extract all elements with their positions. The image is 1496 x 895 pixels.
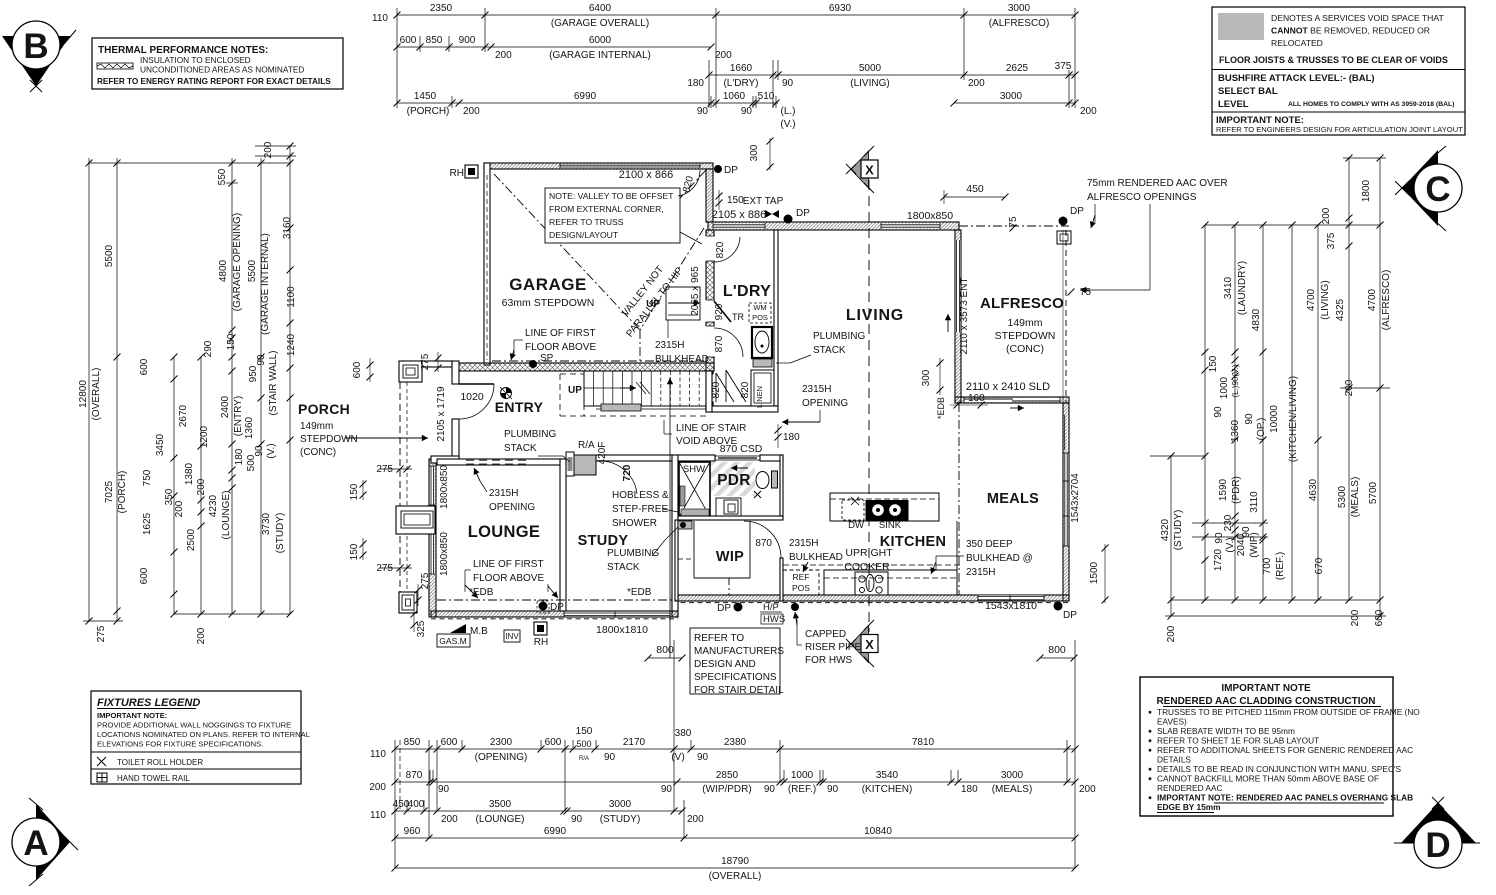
- svg-text:200: 200: [1079, 784, 1096, 795]
- svg-text:90: 90: [1241, 526, 1252, 538]
- svg-text:LINE OF FIRST: LINE OF FIRST: [473, 559, 544, 570]
- brick strip below kitchen wall: [672, 602, 1069, 604]
- svg-text:110: 110: [372, 13, 388, 24]
- svg-text:(PORCH): (PORCH): [407, 106, 450, 117]
- svg-text:2315H: 2315H: [966, 567, 995, 578]
- window 1543x2704: [1064, 453, 1069, 546]
- svg-text:FIXTURES LEGEND: FIXTURES LEGEND: [97, 697, 200, 709]
- svg-text:CAPPED: CAPPED: [805, 629, 846, 640]
- svg-text:18790: 18790: [721, 856, 749, 867]
- section marker X top: [851, 151, 869, 188]
- svg-text:75: 75: [1008, 216, 1019, 228]
- svg-text:200: 200: [263, 141, 274, 158]
- svg-text:4800: 4800: [218, 259, 229, 282]
- svg-text:(STUDY): (STUDY): [275, 513, 286, 554]
- svg-text:FOR STAIR DETAIL: FOR STAIR DETAIL: [694, 685, 784, 696]
- svg-text:(STUDY): (STUDY): [1173, 510, 1184, 551]
- window 1800x1810: [564, 612, 670, 617]
- svg-text:600: 600: [441, 737, 458, 748]
- svg-text:150: 150: [576, 726, 593, 737]
- svg-text:(L'DRY): (L'DRY): [723, 78, 758, 89]
- svg-text:90: 90: [827, 784, 839, 795]
- svg-text:HOBLESS &: HOBLESS &: [612, 490, 669, 501]
- svg-text:275: 275: [96, 625, 107, 642]
- dim 300 alfresco left: [939, 358, 941, 395]
- stair bottom landing edge: [596, 405, 709, 407]
- DP garage top right: [714, 165, 722, 173]
- svg-text:(V): (V): [671, 752, 684, 763]
- svg-text:(LAUNDRY): (LAUNDRY): [1237, 261, 1248, 315]
- svg-text:350 DEEP: 350 DEEP: [966, 539, 1013, 550]
- svg-text:275: 275: [376, 464, 393, 475]
- svg-text:OPENING: OPENING: [802, 398, 848, 409]
- svg-text:DENOTES A SERVICES VOID SPACE: DENOTES A SERVICES VOID SPACE THAT: [1271, 13, 1444, 23]
- svg-text:600: 600: [352, 361, 363, 378]
- svg-text:3110: 3110: [1249, 491, 1260, 513]
- svg-text:2500: 2500: [186, 528, 197, 551]
- svg-text:PLUMBING: PLUMBING: [813, 331, 865, 342]
- bottom dimension extension lines: [394, 740, 396, 868]
- upright cooker: [855, 572, 888, 595]
- svg-text:LINE OF FIRST: LINE OF FIRST: [525, 328, 596, 339]
- svg-text:ALFRESCO OPENINGS: ALFRESCO OPENINGS: [1087, 192, 1197, 203]
- svg-text:POS: POS: [752, 313, 768, 322]
- svg-text:SPECIFICATIONS: SPECIFICATIONS: [694, 672, 777, 683]
- grey void swatch: [1218, 13, 1264, 40]
- svg-text:1020: 1020: [460, 391, 484, 403]
- svg-text:(OVERALL): (OVERALL): [91, 368, 102, 421]
- toilet roll holder legend row: [91, 751, 301, 753]
- svg-text:2670: 2670: [178, 404, 189, 427]
- svg-text:MEALS: MEALS: [987, 491, 1039, 507]
- svg-text:3000: 3000: [1008, 3, 1031, 14]
- svg-text:3000: 3000: [1000, 91, 1023, 102]
- svg-text:REFER TO: REFER TO: [694, 633, 744, 644]
- wall: garage bottom (crosshatched): [452, 363, 714, 371]
- svg-text:PROVIDE ADDITIONAL WALL NOGGIN: PROVIDE ADDITIONAL WALL NOGGINGS TO FIXT…: [97, 721, 291, 730]
- svg-text:5300: 5300: [1337, 485, 1348, 508]
- svg-text:(MEALS): (MEALS): [1350, 477, 1361, 518]
- top dimension row 4 (1450 porch / 6990 / 1060 / 510 / 3000): [397, 102, 778, 104]
- thermal performance notes box: [92, 38, 343, 89]
- svg-text:750: 750: [142, 469, 153, 486]
- svg-text:BULKHEAD @: BULKHEAD @: [966, 553, 1033, 564]
- svg-text:(LOUNGE): (LOUNGE): [221, 491, 232, 540]
- svg-text:SHOWER: SHOWER: [612, 518, 657, 529]
- svg-text:90: 90: [1214, 532, 1225, 544]
- svg-text:200: 200: [1166, 625, 1177, 642]
- WM POS dashed box: [749, 303, 771, 323]
- svg-text:700: 700: [1262, 557, 1273, 574]
- hallway wall left of PDR: [706, 371, 712, 412]
- top dimension row 3 (1660 ldry / 5000 living / 2625 / 375): [709, 74, 1075, 76]
- island DW dashed: [842, 500, 864, 520]
- svg-text:380: 380: [675, 728, 692, 739]
- left dimension mid ticks: [114, 354, 121, 361]
- svg-text:SLAB REBATE WIDTH TO BE 95mm: SLAB REBATE WIDTH TO BE 95mm: [1157, 726, 1295, 736]
- svg-text:FLOOR ABOVE: FLOOR ABOVE: [473, 573, 544, 584]
- svg-text:STEP-FREE: STEP-FREE: [612, 504, 668, 515]
- porch top wall stub: [422, 361, 452, 367]
- svg-text:ENTRY: ENTRY: [495, 399, 544, 415]
- svg-text:(REF.): (REF.): [1275, 552, 1286, 580]
- svg-text:POS: POS: [792, 583, 810, 593]
- svg-text:500: 500: [576, 739, 591, 749]
- garage internal UP ramp arrow: [666, 287, 700, 320]
- svg-text:3540: 3540: [876, 770, 899, 781]
- svg-text:90: 90: [1213, 406, 1224, 418]
- svg-text:2300: 2300: [490, 737, 513, 748]
- svg-text:2315H: 2315H: [789, 538, 818, 549]
- svg-text:800: 800: [656, 644, 674, 656]
- svg-text:(ENTRY): (ENTRY): [233, 396, 244, 436]
- svg-text:STEPDOWN: STEPDOWN: [300, 434, 358, 445]
- gas meter: [437, 634, 470, 647]
- svg-text:(PDR): (PDR): [1231, 476, 1242, 504]
- svg-text:275: 275: [420, 353, 431, 370]
- svg-text:LOUNGE: LOUNGE: [468, 523, 540, 541]
- svg-text:300: 300: [749, 144, 760, 161]
- svg-text:DESIGN/LAYOUT: DESIGN/LAYOUT: [549, 230, 619, 240]
- insulation hatch swatch: [97, 63, 133, 69]
- svg-text:IMPORTANT NOTE:: IMPORTANT NOTE:: [97, 711, 167, 720]
- svg-text:(V.): (V.): [1225, 537, 1236, 552]
- svg-text:LOCATIONS NOMINATED ON PLANS.: LOCATIONS NOMINATED ON PLANS. REFER TO I…: [97, 730, 310, 739]
- svg-text:LEVEL: LEVEL: [1218, 99, 1249, 110]
- stair void extent line: [669, 377, 671, 658]
- svg-text:720: 720: [622, 464, 633, 481]
- window 2105x886: [713, 224, 765, 229]
- svg-text:870: 870: [406, 770, 423, 781]
- services void note box: [1212, 7, 1465, 135]
- svg-text:2110 x 3573 ENT: 2110 x 3573 ENT: [959, 277, 970, 354]
- svg-text:149mm: 149mm: [300, 421, 333, 432]
- bottom dimension row 2 (870/2850 wip-pdr/1000 ref/3540 kitchen/180/3000 meals): [395, 781, 1075, 783]
- svg-text:(REF.): (REF.): [788, 784, 816, 795]
- svg-text:FROM EXTERNAL CORNER,: FROM EXTERNAL CORNER,: [549, 204, 664, 214]
- WIP right wall: [780, 455, 783, 516]
- svg-text:12800: 12800: [78, 380, 89, 408]
- svg-text:ELEVATIONS FOR FIXTURE SPECIFI: ELEVATIONS FOR FIXTURE SPECIFICATIONS.: [97, 740, 263, 749]
- svg-text:DESIGN AND: DESIGN AND: [694, 659, 756, 670]
- svg-text:200: 200: [196, 478, 207, 495]
- svg-text:1360: 1360: [1230, 419, 1241, 442]
- svg-text:2315H: 2315H: [802, 384, 831, 395]
- left dimension vertical lines: [88, 158, 90, 621]
- garage roof valley dash-dot lines: [494, 174, 640, 330]
- svg-text:6930: 6930: [829, 3, 852, 14]
- svg-text:1800x850: 1800x850: [907, 210, 953, 222]
- svg-text:LINE OF STAIR: LINE OF STAIR: [676, 423, 746, 434]
- svg-text:A: A: [23, 824, 48, 863]
- svg-text:6990: 6990: [544, 826, 567, 837]
- svg-text:3500: 3500: [489, 799, 512, 810]
- note valley box: [545, 188, 680, 243]
- svg-text:870: 870: [755, 538, 772, 549]
- svg-text:BULKHEAD: BULKHEAD: [789, 552, 843, 563]
- PDR arrow: [731, 467, 748, 469]
- wall: garage top: [484, 163, 713, 169]
- svg-text:ALFRESCO: ALFRESCO: [980, 295, 1064, 312]
- svg-text:600: 600: [139, 567, 150, 584]
- window 1800x850: [881, 224, 940, 229]
- svg-text:COOKER: COOKER: [844, 561, 890, 573]
- wall: kitchen/meals bottom external: [672, 595, 1069, 601]
- svg-text:5000: 5000: [859, 63, 882, 74]
- svg-text:1660: 1660: [730, 63, 753, 74]
- svg-text:1200: 1200: [199, 425, 210, 448]
- laundry door 820 top: [714, 237, 740, 262]
- svg-text:300: 300: [921, 369, 932, 386]
- svg-text:7810: 7810: [912, 737, 935, 748]
- svg-text:275: 275: [376, 563, 393, 574]
- svg-text:325: 325: [416, 620, 427, 637]
- svg-text:(WIP/PDR): (WIP/PDR): [702, 784, 751, 795]
- svg-text:90: 90: [697, 752, 709, 763]
- svg-text:850: 850: [426, 35, 443, 46]
- stairs: [584, 371, 709, 406]
- svg-text:6000: 6000: [589, 35, 612, 46]
- svg-text:UNCONDITIONED AREAS AS NOMINAT: UNCONDITIONED AREAS AS NOMINATED: [140, 65, 304, 75]
- svg-text:90: 90: [782, 78, 794, 89]
- svg-text:420F: 420F: [597, 442, 608, 465]
- PDR tiled floor: [711, 462, 755, 496]
- svg-text:200: 200: [968, 78, 985, 89]
- svg-text:200: 200: [369, 782, 386, 793]
- svg-text:ALL HOMES TO COMPLY WITH AS 39: ALL HOMES TO COMPLY WITH AS 3959-2018 (B…: [1288, 101, 1454, 108]
- 870 CSD cavity slider: [715, 456, 760, 460]
- svg-text:4630: 4630: [1308, 478, 1319, 501]
- svg-text:1000: 1000: [791, 770, 814, 781]
- svg-text:90: 90: [256, 354, 267, 366]
- svg-text:MANUFACTURERS: MANUFACTURERS: [694, 646, 784, 657]
- svg-text:5700: 5700: [1368, 481, 1379, 504]
- svg-text:(MEALS): (MEALS): [992, 784, 1033, 795]
- svg-text:REFER TO ENGINEERS DESIGN FOR: REFER TO ENGINEERS DESIGN FOR ARTICULATI…: [1216, 125, 1463, 134]
- bottom dimension row 1 (850/600/2300 opening/600/150/500/2170/380/2380/7810): [395, 748, 1075, 750]
- plumbing stack dot at WIP corner: [678, 521, 692, 529]
- svg-text:(KITCHEN): (KITCHEN): [862, 784, 913, 795]
- stair void dashed outline: [583, 374, 585, 416]
- svg-text:(LIVING): (LIVING): [1320, 280, 1331, 319]
- svg-text:200: 200: [441, 814, 458, 825]
- porch pillar bottom: [399, 592, 417, 613]
- svg-text:670: 670: [1314, 557, 1325, 574]
- svg-text:SELECT BAL: SELECT BAL: [1218, 86, 1278, 97]
- top dimension row 1 (2350 / 6400 garage overall / 6930 / 3000 alfresco): [397, 14, 1075, 16]
- R/A grey unit: [566, 452, 574, 476]
- svg-text:L'DRY: L'DRY: [723, 283, 771, 300]
- svg-text:4830: 4830: [1251, 308, 1262, 331]
- svg-text:3410: 3410: [1223, 276, 1234, 299]
- svg-text:RISER PIPE: RISER PIPE: [805, 642, 861, 653]
- svg-text:75: 75: [1080, 287, 1092, 298]
- svg-text:200: 200: [1321, 207, 1332, 224]
- REF POS dashed box: [783, 570, 819, 595]
- svg-text:RENDERED AAC CLADDING CONSTRUC: RENDERED AAC CLADDING CONSTRUCTION: [1156, 696, 1375, 707]
- svg-text:1543x2704: 1543x2704: [1070, 473, 1081, 523]
- SHW shower: [679, 462, 710, 517]
- svg-text:(GARAGE INTERNAL): (GARAGE INTERNAL): [549, 50, 651, 61]
- svg-text:180: 180: [961, 784, 978, 795]
- line of first floor dash-dot in garage: [492, 360, 704, 362]
- wall: lounge west external: [429, 459, 436, 617]
- svg-text:STACK: STACK: [607, 562, 640, 573]
- svg-text:(KITCHEN/LIVING): (KITCHEN/LIVING): [1288, 376, 1299, 462]
- dim 180 below linen: [775, 427, 782, 434]
- svg-text:200: 200: [1080, 106, 1097, 117]
- svg-text:INSULATION TO ENCLOSED: INSULATION TO ENCLOSED: [140, 55, 251, 65]
- svg-text:950: 950: [248, 365, 259, 382]
- fireplace bump on west wall: [396, 506, 435, 534]
- svg-text:INV: INV: [505, 632, 519, 641]
- svg-text:150: 150: [349, 483, 360, 500]
- svg-text:2350: 2350: [430, 3, 453, 14]
- svg-text:D: D: [1425, 826, 1450, 865]
- svg-text:110: 110: [370, 810, 386, 821]
- svg-text:STEPDOWN: STEPDOWN: [995, 330, 1056, 342]
- dashed 2315H opening in lounge wall: [466, 460, 531, 464]
- svg-text:REFER TO TRUSS: REFER TO TRUSS: [549, 217, 624, 227]
- svg-text:(V.): (V.): [266, 443, 277, 458]
- svg-text:800: 800: [1048, 644, 1066, 656]
- bottom dimension row 5 (18790 overall): [395, 867, 1075, 869]
- svg-text:PDR: PDR: [717, 472, 751, 489]
- svg-text:820: 820: [715, 241, 726, 258]
- svg-text:DETAILS: DETAILS: [1157, 755, 1191, 765]
- rendered AAC cladding note box: [1140, 677, 1393, 816]
- wall: alfresco left: [955, 230, 961, 403]
- right dimension connectors: [1205, 224, 1380, 226]
- svg-text:HAND TOWEL RAIL: HAND TOWEL RAIL: [117, 774, 190, 783]
- island sink unit: [866, 501, 908, 521]
- PDR/SHW top wall: [678, 455, 715, 461]
- svg-text:200: 200: [1350, 609, 1361, 626]
- wall: entry/study top segment with RA: [596, 455, 678, 461]
- svg-text:(GARAGE OPENING): (GARAGE OPENING): [232, 213, 243, 311]
- svg-text:200: 200: [1344, 379, 1355, 396]
- svg-text:DP: DP: [550, 602, 564, 613]
- svg-text:R/A: R/A: [579, 756, 589, 762]
- svg-text:IMPORTANT NOTE: RENDERED AAC P: IMPORTANT NOTE: RENDERED AAC PANELS OVER…: [1157, 793, 1413, 803]
- dim 800 right: [1040, 657, 1074, 659]
- svg-text:1800x850: 1800x850: [439, 465, 450, 509]
- alfresco right dashed edge: [1065, 230, 1067, 403]
- svg-text:90: 90: [697, 106, 709, 117]
- hand towel rail legend row: [91, 768, 301, 770]
- kitchen bulkhead dashed: [783, 564, 960, 566]
- svg-text:3160: 3160: [282, 216, 293, 239]
- svg-text:BULKHEAD: BULKHEAD: [655, 354, 709, 365]
- svg-text:200: 200: [495, 50, 512, 61]
- front door leaf and swing 1020: [459, 383, 494, 385]
- corner marker B (top-left): [2, 21, 76, 92]
- svg-text:1590: 1590: [1218, 478, 1229, 501]
- wall: lounge top: [437, 459, 566, 465]
- svg-text:180: 180: [783, 432, 800, 443]
- svg-text:(PORCH): (PORCH): [117, 471, 128, 514]
- svg-text:2315H: 2315H: [489, 488, 518, 499]
- svg-text:LIVING: LIVING: [846, 307, 904, 324]
- svg-text:63mm STEPDOWN: 63mm STEPDOWN: [502, 297, 595, 309]
- svg-text:NOTE: VALLEY TO BE OFFSET: NOTE: VALLEY TO BE OFFSET: [549, 191, 674, 201]
- svg-text:TR: TR: [732, 312, 744, 322]
- svg-text:820: 820: [711, 381, 722, 398]
- svg-text:FLOOR JOISTS & TRUSSES TO BE C: FLOOR JOISTS & TRUSSES TO BE CLEAR OF VO…: [1219, 55, 1448, 65]
- svg-text:200: 200: [174, 500, 185, 517]
- svg-text:EAVES): EAVES): [1157, 717, 1187, 727]
- wall: garage right upper: [706, 169, 713, 222]
- svg-text:LINEN: LINEN: [755, 386, 764, 408]
- PDR toilet: [756, 472, 769, 489]
- svg-text:2105 x 886: 2105 x 886: [712, 209, 766, 221]
- svg-text:B: B: [23, 27, 48, 66]
- svg-text:7025: 7025: [104, 480, 115, 503]
- svg-text:200: 200: [687, 814, 704, 825]
- svg-text:PLUMBING: PLUMBING: [607, 548, 659, 559]
- svg-text:R/A: R/A: [578, 440, 595, 451]
- svg-text:600: 600: [545, 737, 562, 748]
- porch dashed boundary: [399, 382, 401, 592]
- brick strip below lounge wall: [431, 618, 678, 620]
- dims 150/150 porch: [362, 480, 364, 500]
- grey appliance strip: [753, 359, 772, 367]
- svg-text:RH: RH: [534, 637, 548, 648]
- svg-text:(ALFRESCO): (ALFRESCO): [989, 18, 1050, 29]
- MB triangle: [450, 624, 466, 633]
- svg-text:(L.): (L.): [781, 106, 796, 117]
- svg-text:400: 400: [408, 799, 425, 810]
- svg-text:IMPORTANT NOTE: IMPORTANT NOTE: [1221, 683, 1311, 694]
- linen closet: [751, 370, 774, 406]
- dim 1500 meals right: [1104, 544, 1106, 603]
- svg-text:(CONC): (CONC): [1006, 343, 1044, 355]
- svg-text:2380: 2380: [724, 737, 747, 748]
- svg-text:150: 150: [349, 543, 360, 560]
- DP dots bottom: [539, 602, 548, 611]
- corner marker D (bottom-right): [1394, 797, 1480, 868]
- entry floor waste symbol: [501, 388, 512, 399]
- DP alfresco: [1059, 217, 1068, 226]
- crosshatch wall column at stair right: [706, 371, 713, 410]
- svg-text:(GARAGE INTERNAL): (GARAGE INTERNAL): [260, 233, 271, 335]
- svg-text:GARAGE: GARAGE: [509, 275, 587, 294]
- svg-text:960: 960: [404, 826, 421, 837]
- svg-text:6400: 6400: [589, 3, 612, 14]
- svg-text:M.B: M.B: [470, 626, 488, 637]
- wall: study right: [672, 455, 678, 611]
- svg-text:*EDB: *EDB: [936, 397, 946, 419]
- RH bottom: [534, 622, 547, 635]
- svg-text:1543x1810: 1543x1810: [985, 600, 1037, 612]
- svg-text:C: C: [1425, 170, 1450, 209]
- svg-text:1800x1810: 1800x1810: [596, 624, 648, 636]
- PDR/WIP divider wall: [678, 516, 783, 520]
- svg-text:2850: 2850: [716, 770, 739, 781]
- svg-text:1100: 1100: [286, 286, 297, 308]
- svg-text:200: 200: [715, 50, 732, 61]
- right dimension mid ticks: [1202, 349, 1209, 356]
- svg-text:FOR HWS: FOR HWS: [805, 655, 853, 666]
- svg-text:(L.)90(V.): (L.)90(V.): [1231, 364, 1240, 397]
- corner marker A (bottom-left): [12, 798, 78, 886]
- svg-text:HWS: HWS: [763, 614, 785, 625]
- svg-text:DP: DP: [796, 208, 810, 219]
- svg-text:1380: 1380: [184, 462, 195, 485]
- alfresco entry arrow: [947, 314, 949, 332]
- svg-text:375: 375: [1326, 232, 1337, 249]
- svg-text:1240: 1240: [286, 333, 297, 356]
